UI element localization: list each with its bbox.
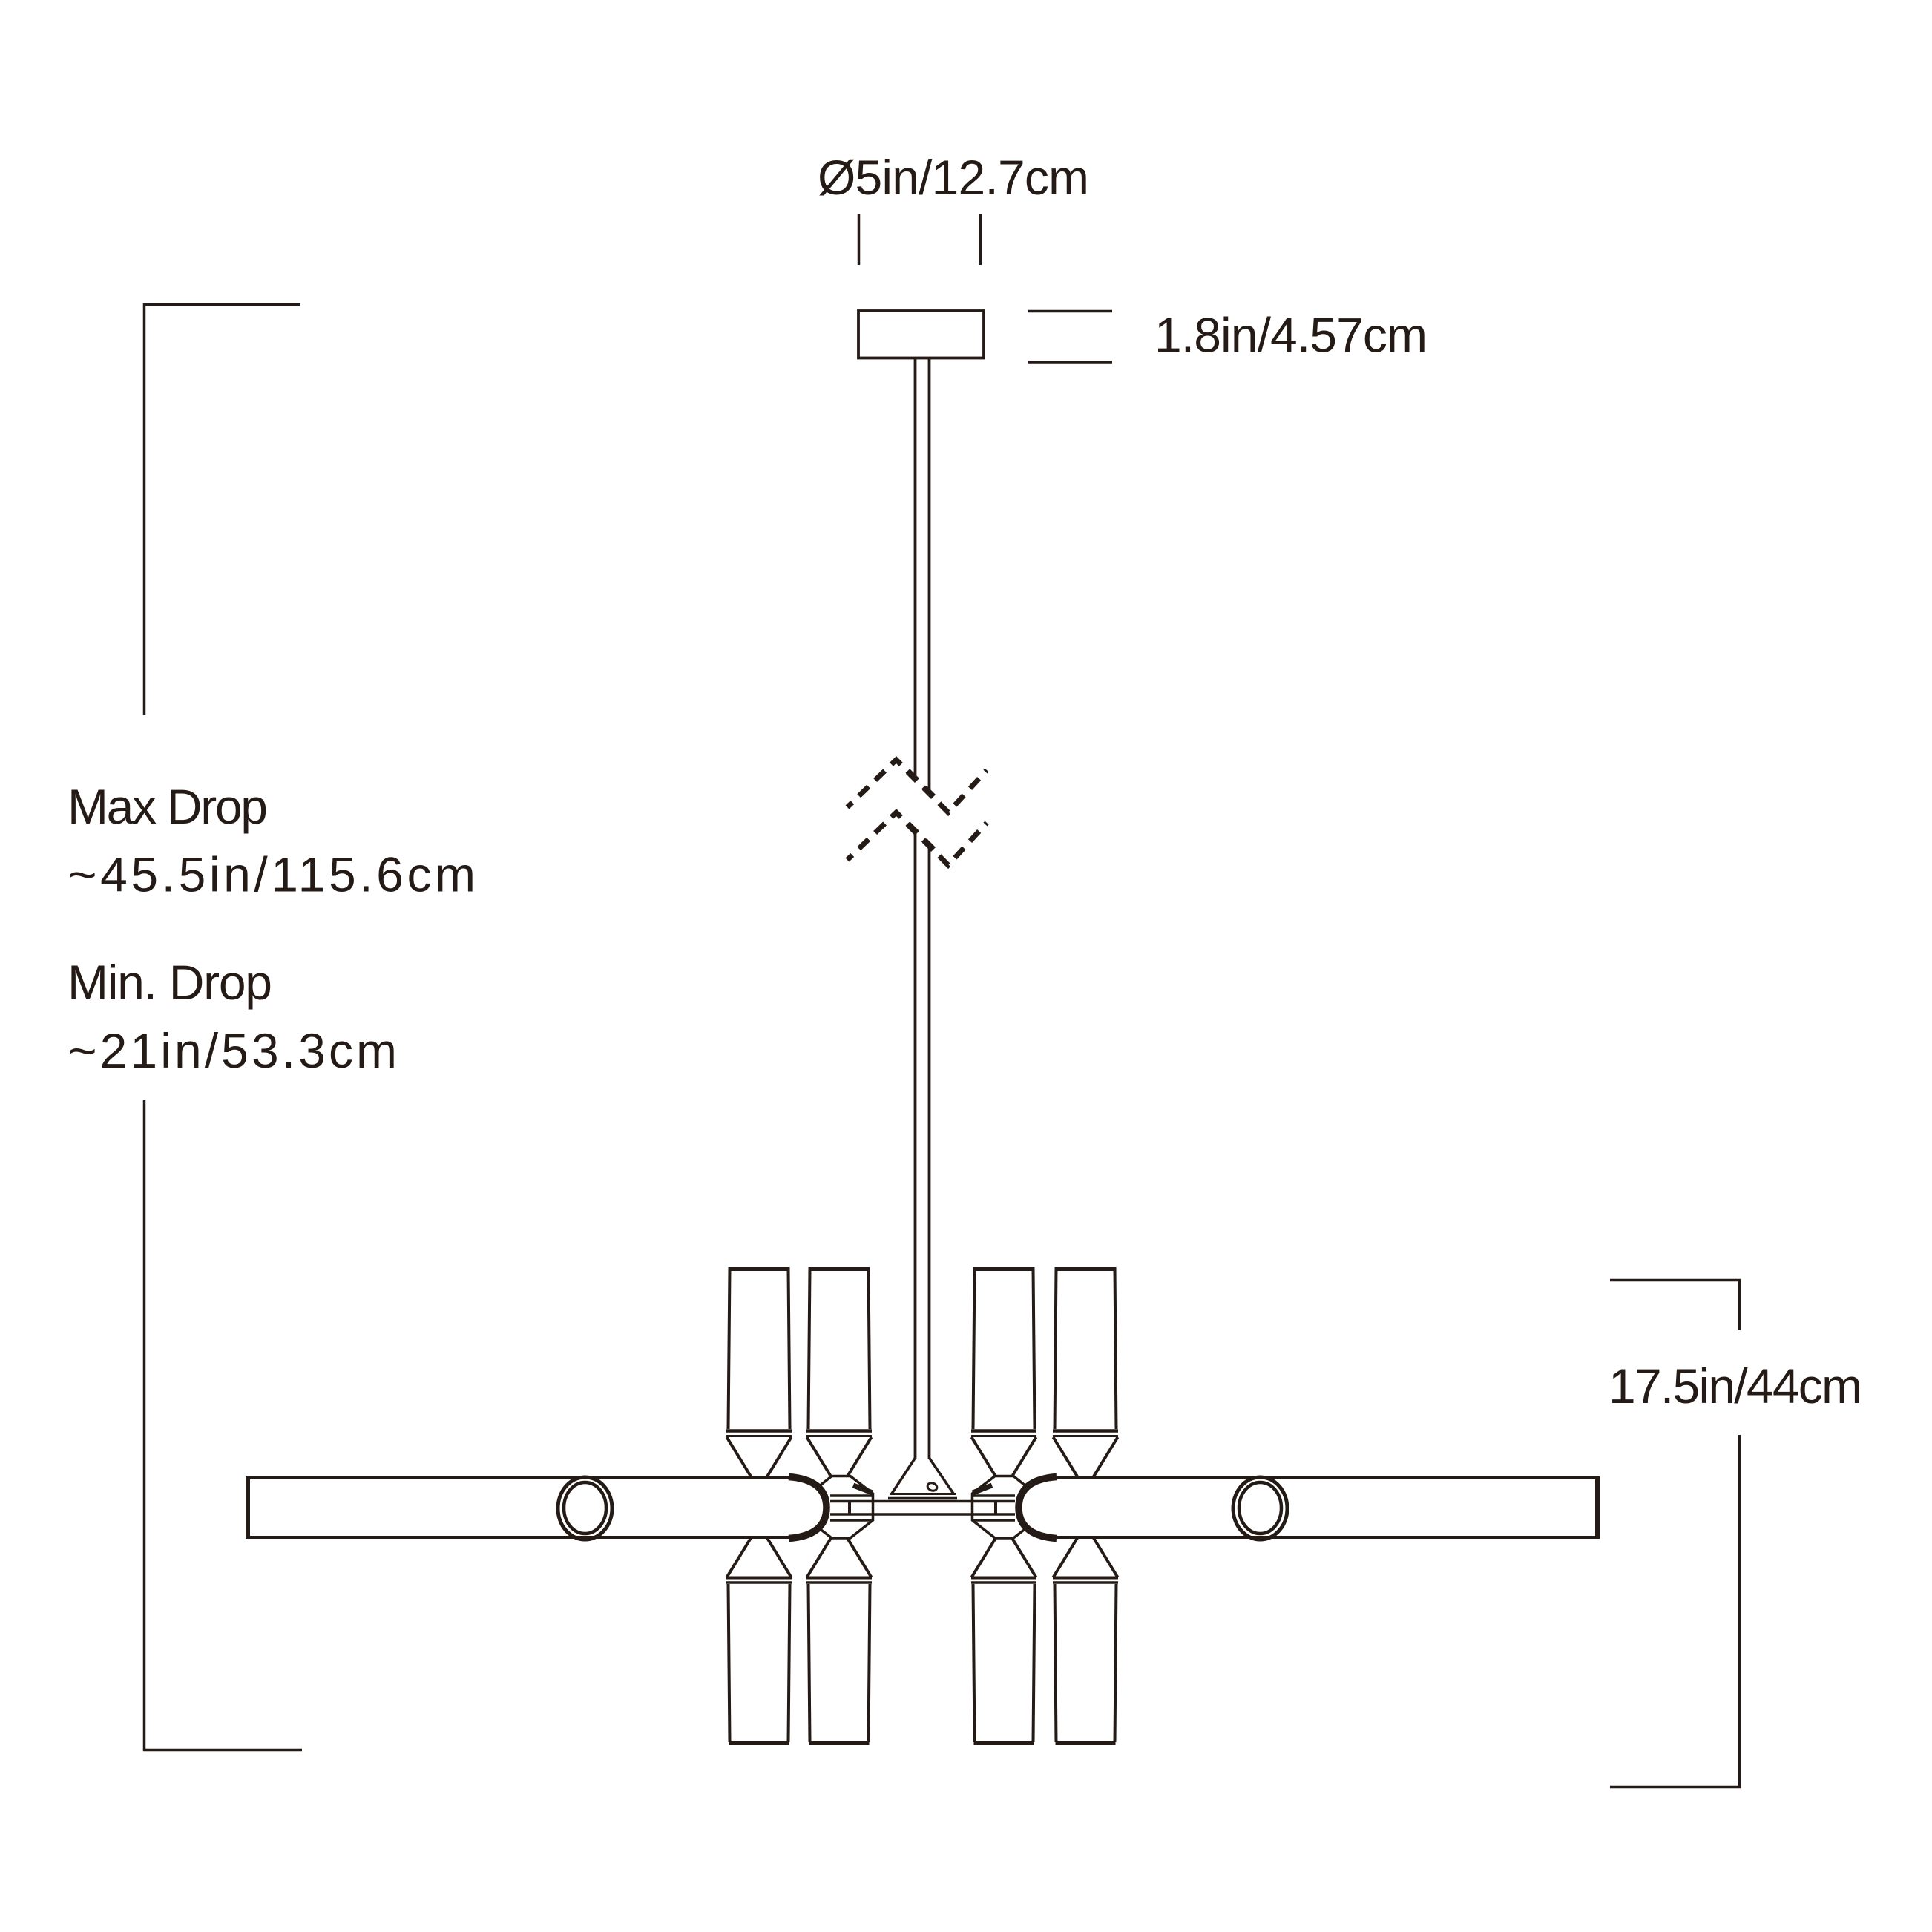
left knuckle divider <box>848 1501 851 1514</box>
stem foot screw <box>927 1482 939 1492</box>
svg-text:~21in/53.3cm: ~21in/53.3cm <box>68 1023 397 1078</box>
ceiling canopy <box>858 311 984 358</box>
right knuckle top-left thick chamfer <box>973 1485 992 1493</box>
right arm tube left rounded cap <box>1019 1477 1057 1539</box>
break tick upper-right <box>924 788 933 797</box>
right knuckle hub body <box>973 1476 1028 1539</box>
dimension tick left of canopy diameter <box>858 214 861 265</box>
max drop bracket bottom line <box>143 1749 302 1752</box>
fixture height bracket vertical lower <box>1738 1435 1741 1788</box>
stem upper left line <box>914 359 917 779</box>
upper shade 1 <box>726 1269 792 1476</box>
dimension line: canopy height top <box>1028 310 1112 313</box>
fixture height bracket top line <box>1610 1279 1741 1282</box>
dimension tick right of canopy diameter <box>979 214 982 265</box>
left knuckle top-right thick chamfer <box>853 1485 873 1493</box>
fixture height bracket vertical upper <box>1738 1279 1741 1330</box>
center connector bottom line <box>830 1513 1015 1516</box>
break symbol upper zigzag (dashed) <box>847 760 987 812</box>
right arm socket ring outer <box>1233 1477 1287 1540</box>
right arm tube right end cap <box>1595 1476 1600 1539</box>
svg-text:17.5in/44cm: 17.5in/44cm <box>1609 1358 1862 1413</box>
left knuckle hub body <box>818 1476 873 1539</box>
upper shade 3 <box>971 1269 1036 1476</box>
lower shade 3 <box>971 1538 1036 1743</box>
center connector top line <box>830 1500 1015 1503</box>
lower shade 1 <box>726 1538 792 1743</box>
left arm socket ring outer <box>558 1477 612 1540</box>
left knuckle groove upper <box>830 1494 872 1497</box>
right knuckle groove lower <box>973 1519 1015 1522</box>
right knuckle divider <box>994 1501 997 1514</box>
right arm tube bottom line <box>1051 1536 1598 1539</box>
upper shade 4 <box>1053 1269 1118 1476</box>
stem lower left line <box>914 831 917 1459</box>
break tick lower-left <box>908 824 917 833</box>
fixture height bracket bottom line <box>1610 1786 1741 1789</box>
lower shade 2 <box>806 1538 872 1743</box>
svg-text:Ø5in/12.7cm: Ø5in/12.7cm <box>818 150 1089 205</box>
left arm tube top line <box>247 1476 794 1479</box>
max drop bracket vertical lower <box>143 1100 146 1751</box>
stem upper right line <box>928 359 931 795</box>
left arm socket ring inner <box>564 1482 606 1534</box>
max drop bracket vertical upper <box>143 303 146 715</box>
break tick lower-right <box>924 841 933 850</box>
svg-text:Min. Drop: Min. Drop <box>68 955 272 1010</box>
stem foot left flare <box>892 1458 916 1494</box>
right arm tube top line <box>1051 1476 1598 1479</box>
svg-text:Max Drop: Max Drop <box>68 779 268 834</box>
right arm socket ring inner <box>1239 1482 1281 1534</box>
max drop bracket top line <box>143 303 300 306</box>
left arm tube left end cap <box>246 1476 250 1539</box>
left arm tube right rounded cap <box>789 1477 827 1539</box>
left arm tube bottom line <box>247 1536 794 1539</box>
stem lower right line <box>928 846 931 1459</box>
stem foot plate top <box>890 1493 956 1495</box>
dimension line: canopy height bottom <box>1028 361 1112 364</box>
left knuckle groove lower <box>830 1519 872 1522</box>
stem foot right flare <box>930 1458 954 1494</box>
break symbol lower zigzag (dashed) <box>847 812 987 865</box>
break tick upper-left <box>908 772 917 781</box>
upper shade 2 <box>806 1269 872 1476</box>
stem foot plate bottom <box>888 1497 957 1500</box>
svg-text:1.8in/4.57cm: 1.8in/4.57cm <box>1154 308 1427 363</box>
lower shade 4 <box>1053 1538 1118 1743</box>
right knuckle groove upper <box>973 1494 1015 1497</box>
